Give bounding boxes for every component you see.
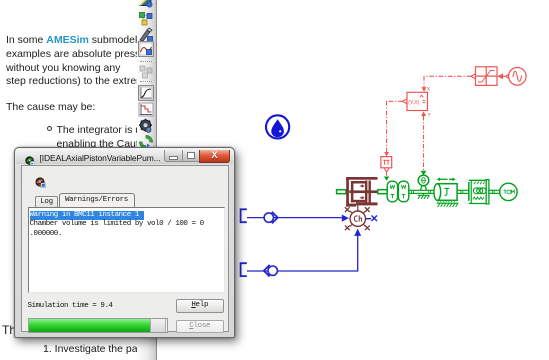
vertical toolbar	[137, 0, 157, 360]
rotary inertia J1	[434, 184, 457, 201]
flow sensor top	[264, 212, 278, 224]
torque sensor W/T right	[398, 181, 408, 202]
signal source U1 (sine)	[506, 68, 526, 86]
Close button	[176, 320, 224, 334]
wire saturation->fxy corner	[422, 74, 476, 92]
pump P1 (IDEAL axial piston variable pump)	[346, 177, 378, 207]
hydraulic stub right of pump	[378, 190, 387, 194]
saturation block U2	[476, 67, 498, 86]
message list box	[28, 207, 225, 293]
shaft spring->TOM	[489, 190, 500, 193]
wire pump->chamber	[357, 205, 359, 211]
ground under theta	[418, 193, 430, 198]
dialog window	[14, 147, 235, 338]
blue unconnected port X	[366, 216, 378, 222]
AMESim run logo	[35, 175, 46, 186]
sketch pane	[157, 0, 549, 360]
caption buttons	[164, 150, 184, 163]
wire port->chamber (bottom)	[247, 236, 358, 271]
port arrow (green) on theta sensor	[421, 171, 427, 176]
arrow into chamber	[342, 215, 349, 222]
chamber Ch	[350, 211, 365, 226]
torque sensor W/T left	[387, 181, 397, 202]
hydraulic port bracket top	[241, 209, 247, 222]
arrow up into chamber	[354, 229, 361, 236]
ground under J	[437, 202, 459, 207]
port arrow (green) on torque sensor	[384, 177, 389, 181]
wire theta-sensor->fxy (Y input)	[421, 111, 426, 170]
angle sensor theta	[418, 175, 429, 190]
svg-text:Y: Y	[427, 112, 431, 119]
velocity arrows above J	[437, 178, 456, 182]
progress bar	[28, 318, 168, 333]
hydraulic port bracket bottom	[241, 263, 247, 276]
simulation time label	[28, 302, 113, 310]
tabs	[35, 196, 58, 208]
flow sensor bottom	[264, 265, 278, 277]
rotary spring-damper K1	[469, 180, 489, 204]
Help button	[176, 299, 224, 313]
shaft WT->J	[409, 190, 437, 193]
client area	[21, 165, 229, 332]
wire gain->pump control port	[384, 168, 389, 175]
unconnected port X marks on chamber	[345, 207, 370, 230]
hydraulic stub left of pump	[337, 190, 346, 194]
prime mover TOM	[500, 183, 517, 200]
wire port->chamber (top)	[247, 217, 342, 219]
f(Y,X) block U3	[407, 92, 428, 110]
svg-text:X: X	[427, 86, 431, 93]
shaft J->spring	[457, 190, 469, 193]
svg-text:(Y,X): (Y,X)	[408, 100, 419, 106]
wire fxy->gain	[384, 99, 407, 157]
gain block U4 (pi)	[381, 157, 392, 168]
wire source->saturation	[497, 73, 505, 79]
fluid-properties droplet icon	[266, 115, 289, 138]
